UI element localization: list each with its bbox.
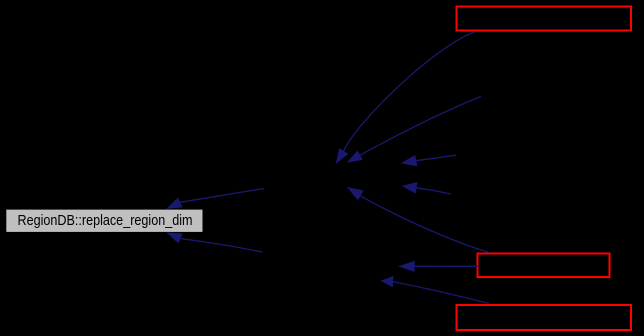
edge F: from hidden node M2 to gray box bottom — [168, 233, 263, 252]
svg-text:RegionDB::replace_region_dim: RegionDB::replace_region_dim — [18, 212, 193, 229]
node red box middle-right — [478, 254, 610, 278]
node RegionDB::replace_region_dim (current, gray) — [6, 209, 203, 232]
edge H: line from bottom-right box to M2 bottom — [382, 277, 489, 304]
edge J: curve from middle-right box to M1 bottom — [348, 188, 489, 253]
node red box bottom-right — [457, 305, 632, 330]
edge E: from hidden node M1 to gray box top — [168, 189, 264, 209]
edge A: line from hidden right node to M1 top — [348, 97, 481, 163]
edge C: short arrow into M1 right bottom — [403, 183, 451, 194]
node red box top-right — [457, 7, 632, 31]
edge B2: short arrow into M1 right top — [402, 155, 456, 166]
edge D: curve from top-right box to hidden node M1 top — [336, 32, 476, 164]
edge G: line from middle-right box to hidden node M2 right — [400, 262, 478, 272]
